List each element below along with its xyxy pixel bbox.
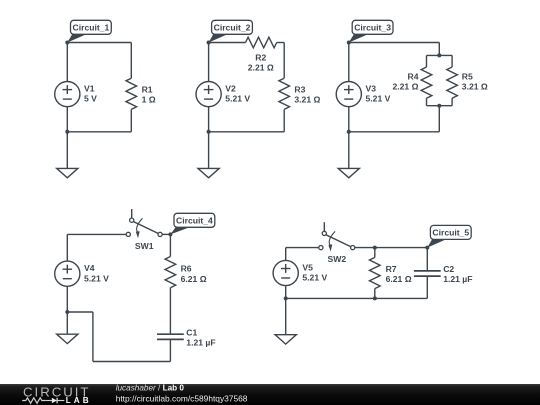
label R5 value [462,71,488,91]
voltage source V2 [196,82,221,107]
svg-text:V5: V5 [302,262,313,272]
svg-text:R7: R7 [386,264,397,274]
wire [426,248,428,271]
wire [426,276,428,298]
svg-text:1.21 µF: 1.21 µF [443,274,472,284]
svg-text:3.21 Ω: 3.21 Ω [294,95,320,105]
capacitor C2 [414,271,441,276]
ground (circuit 1) [57,132,78,178]
wire [67,42,131,44]
svg-text:Circuit_1: Circuit_1 [73,23,110,33]
svg-text:V3: V3 [366,84,377,94]
label V4 value [84,263,109,283]
wire [348,107,350,132]
node label callout Circuit_2 [209,20,253,42]
wire [426,98,428,106]
wire [355,247,375,249]
wire [209,42,246,44]
wire [438,43,440,56]
logo diode [52,398,57,404]
wire [374,289,376,299]
label V3 value [366,84,391,104]
node circuit2 bottom junction [207,130,211,134]
svg-text:1 Ω: 1 Ω [142,95,156,105]
svg-text:R1: R1 [142,84,153,94]
resistor R2 [246,37,277,48]
resistor R3 [279,78,290,109]
label C1 value [186,327,215,347]
svg-text:V2: V2 [225,84,236,94]
wire [427,105,453,107]
switch SW1 [126,209,162,238]
svg-text:Circuit_2: Circuit_2 [214,23,251,33]
voltage source V1 [55,82,80,107]
svg-text:2.21 Ω: 2.21 Ω [248,62,274,72]
svg-text:SW2: SW2 [327,254,346,264]
svg-text:6.21 Ω: 6.21 Ω [386,274,412,284]
svg-text:1.21 µF: 1.21 µF [186,338,215,348]
wire [67,311,93,313]
resistor R6 [165,257,176,288]
ground (circuit 3) [338,132,359,178]
wire [438,106,440,132]
svg-text:C1: C1 [186,327,197,337]
svg-text:LAB: LAB [66,396,92,405]
wire [277,42,285,44]
ground (circuit 2) [198,132,219,178]
footer bar [0,384,540,405]
node circuit5 switch-R7 junction [373,246,377,250]
svg-text:V4: V4 [84,263,95,273]
switch SW2 [319,222,355,251]
wire [208,107,210,132]
svg-text:Circuit_5: Circuit_5 [432,228,469,238]
wire [451,55,453,67]
node label callout Circuit_4 [170,213,214,234]
svg-text:V1: V1 [84,84,95,94]
capacitor C1 [157,334,184,339]
resistor R1 [126,78,137,109]
wire [451,98,453,106]
resistor R7 [370,257,381,288]
svg-text:5.21 V: 5.21 V [302,273,327,283]
ground (circuit 5) [275,298,296,344]
node circuit1 bottom junction [65,130,69,134]
ground (circuit 4) [57,312,78,344]
svg-text:2.21 Ω: 2.21 Ω [392,82,418,92]
wire [93,361,170,363]
wire [66,234,68,260]
svg-text:5.21 V: 5.21 V [225,94,250,104]
wire [67,233,126,235]
wire [283,109,285,131]
wire [374,248,376,258]
wire [209,131,285,133]
wire [375,247,428,249]
node circuit5 bottom R7 junction [373,296,377,300]
wire [92,312,94,362]
voltage source V4 [55,261,80,286]
svg-text:6.21 Ω: 6.21 Ω [181,274,207,284]
svg-text:3.21 Ω: 3.21 Ω [462,82,488,92]
svg-text:Circuit_4: Circuit_4 [176,216,213,226]
wire [130,109,132,131]
node circuit3 bottom junction [347,130,351,134]
resistor R4 [421,67,432,98]
svg-text:R6: R6 [181,264,192,274]
wire [162,233,170,235]
node circuit5 bottom junction [284,296,288,300]
logo resistor squiggle [22,398,45,403]
wire [66,107,68,132]
node label callout Circuit_5 [427,225,471,247]
wire [286,297,428,299]
svg-text:lucashaber / Lab 0: lucashaber / Lab 0 [116,384,185,392]
voltage source V3 [336,82,361,107]
node circuit1 top (callout anchor) [65,41,69,45]
node circuit3 top-left (callout anchor) [347,41,351,45]
wire [349,42,440,44]
resistor R5 [447,67,458,98]
node label callout Circuit_3 [349,20,393,42]
label C2 value [443,264,472,284]
node label callout Circuit_1 [67,20,111,42]
svg-text:5.21 V: 5.21 V [84,273,109,283]
label R1 value [142,84,156,104]
wire [426,55,428,67]
svg-text:R5: R5 [462,71,473,81]
svg-text:R4: R4 [408,71,419,81]
node circuit2 top-left (callout anchor) [207,41,211,45]
label R6 value [181,264,207,284]
wire [67,131,131,133]
wire [130,43,132,79]
wire [286,247,319,249]
wire [169,339,171,361]
svg-text:Circuit_3: Circuit_3 [354,23,391,33]
node circuit5 top-right junction (callout anchor) [425,246,429,250]
label V5 value [302,262,327,282]
node circuit3 parallel top junction [437,53,441,57]
wire [285,248,287,261]
svg-text:SW1: SW1 [135,241,154,251]
svg-text:R2: R2 [255,52,266,62]
svg-text:5 V: 5 V [84,94,97,104]
label R2 value [248,52,274,72]
svg-text:C2: C2 [443,264,454,274]
label R7 value [386,264,412,284]
label R3 value [294,84,320,104]
label R4 value [392,71,418,91]
wire [285,286,287,299]
label V1 value [84,84,97,104]
node circuit4 bottom junction [65,310,69,314]
wire [66,43,68,82]
wire [208,43,210,82]
wire [66,287,68,312]
svg-text:http://circuitlab.com/c589htqy: http://circuitlab.com/c589htqy37568 [116,394,248,404]
wire [348,43,350,82]
wire [169,234,171,256]
wire [349,131,440,133]
node circuit4 switch-R6 junction (callout anchor) [168,232,172,236]
svg-text:5.21 V: 5.21 V [366,94,391,104]
wire [283,43,285,79]
wire [169,288,171,335]
label V2 value [225,84,250,104]
voltage source V5 [273,260,298,285]
svg-text:R3: R3 [294,84,305,94]
footer background bar [0,384,540,405]
node circuit3 parallel bottom junction [437,104,441,108]
wire [427,54,453,56]
